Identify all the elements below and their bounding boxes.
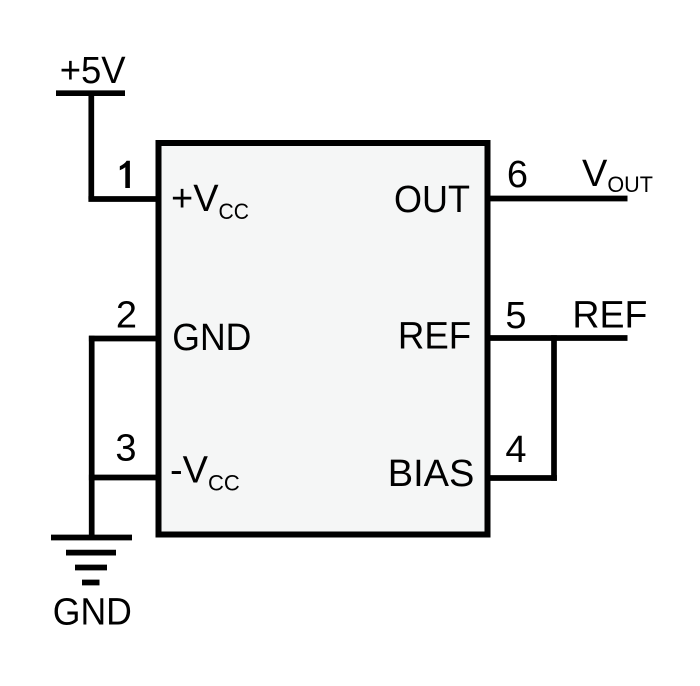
+5V rail bar xyxy=(56,90,125,96)
svg-text:OUT: OUT xyxy=(394,179,470,221)
svg-text:2: 2 xyxy=(116,295,137,337)
svg-text:5: 5 xyxy=(505,295,526,337)
svg-text:GND: GND xyxy=(53,592,132,634)
wire: pin 3 horizontal xyxy=(89,475,158,481)
wire: pin 4 to pin 5 net (vertical) xyxy=(551,335,557,481)
IC U1 body xyxy=(159,143,488,535)
wire: +5V rail to pin 1 (vertical) xyxy=(88,93,94,199)
wire: pin 1 horizontal xyxy=(88,196,158,202)
svg-text:GND: GND xyxy=(172,317,251,359)
wire: pin 2 horizontal xyxy=(89,336,158,342)
ground symbol bar 1 xyxy=(51,535,132,541)
wire: pin 5 horizontal xyxy=(487,335,628,341)
ground symbol bar 2 xyxy=(66,550,116,556)
wire: pin 4 horizontal xyxy=(487,475,557,481)
ground symbol bar 3 xyxy=(75,565,107,571)
svg-text:3: 3 xyxy=(115,428,136,470)
ground symbol bar 4 xyxy=(82,580,100,586)
svg-text:REF: REF xyxy=(572,295,647,337)
svg-text:+5V: +5V xyxy=(60,50,127,92)
svg-text:REF: REF xyxy=(398,316,471,358)
wire: pin 6 horizontal xyxy=(487,196,628,202)
svg-text:BIAS: BIAS xyxy=(388,453,475,495)
wire: pins 2-3 to ground (vertical) xyxy=(89,336,95,538)
pin number 1 xyxy=(120,161,130,188)
svg-text:6: 6 xyxy=(507,154,528,196)
svg-text:4: 4 xyxy=(505,429,526,471)
